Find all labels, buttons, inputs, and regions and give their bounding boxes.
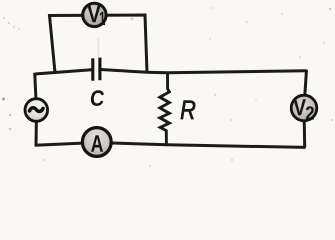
wire V1 loop (top measuring branch) [50,15,148,73]
paper speckles (decorative) [2,7,333,167]
capacitor C plates [93,58,100,81]
label C [90,90,104,106]
wire left vertical [35,73,37,146]
voltmeter V2 [291,95,317,121]
resistor R zigzag [160,73,170,145]
ac source [25,99,48,122]
wire right vertical [304,70,307,148]
wire top-right (capacitor to right corner) [101,70,307,73]
wire top-left (source to capacitor) [35,70,92,74]
label R [181,101,195,119]
paper background [0,0,335,169]
ammeter A [82,128,111,157]
wire bottom [35,143,306,148]
voltmeter V1 [83,3,106,26]
